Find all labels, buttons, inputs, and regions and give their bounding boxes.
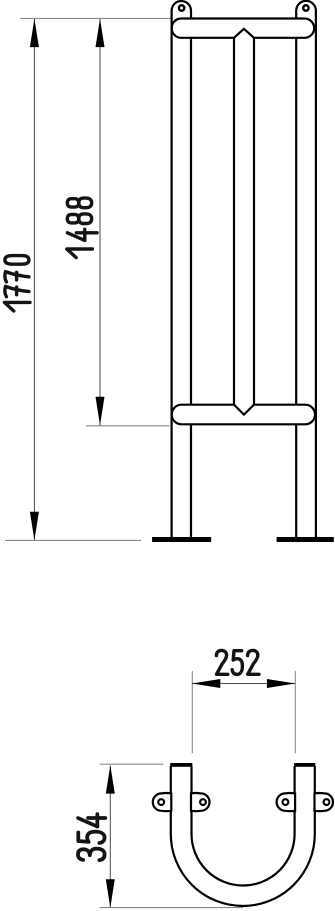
dimension line 252	[192, 679, 296, 688]
wire: top extension line	[20, 17, 170, 19]
right mounting lug (front view)	[296, 1, 316, 20]
left foot	[152, 537, 211, 542]
right tube right ear lug	[315, 793, 333, 811]
right tube left ear lug	[277, 793, 296, 811]
middle tube (front view)	[234, 38, 254, 405]
lower crossbar capsule with centre notch	[172, 405, 315, 425]
wire: 354 bottom extension line	[100, 907, 243, 909]
label 252	[216, 650, 259, 674]
dimension line 1770	[30, 19, 39, 541]
right foot	[277, 537, 334, 542]
left tube end cap	[170, 763, 192, 767]
left tube right ear lug	[191, 793, 210, 811]
right tube (front view)	[296, 19, 316, 538]
dimension line 1488	[96, 19, 105, 426]
dimension line 354	[106, 765, 115, 908]
label 354 (rotated)	[78, 814, 105, 860]
label 1488 (rotated)	[67, 198, 97, 257]
label 1770 (rotated)	[4, 256, 30, 311]
U-shaped tube inner contour (bottom view)	[192, 766, 295, 886]
wire: lower-bar extension line (1488)	[86, 425, 170, 427]
right tube end cap	[294, 763, 315, 767]
wire: 252 right extension line	[294, 671, 296, 753]
wire: ground extension line (1770)	[5, 539, 141, 541]
wire: 252 left extension line	[191, 671, 193, 753]
left tube left ear lug	[153, 793, 172, 811]
left tube (front view)	[172, 19, 191, 538]
left mounting lug (front view)	[172, 1, 191, 20]
top crossbar capsule with centre notch	[172, 19, 315, 38]
U-shaped tube outer contour (bottom view)	[171, 766, 315, 906]
wire: 354 top extension line	[100, 763, 164, 765]
